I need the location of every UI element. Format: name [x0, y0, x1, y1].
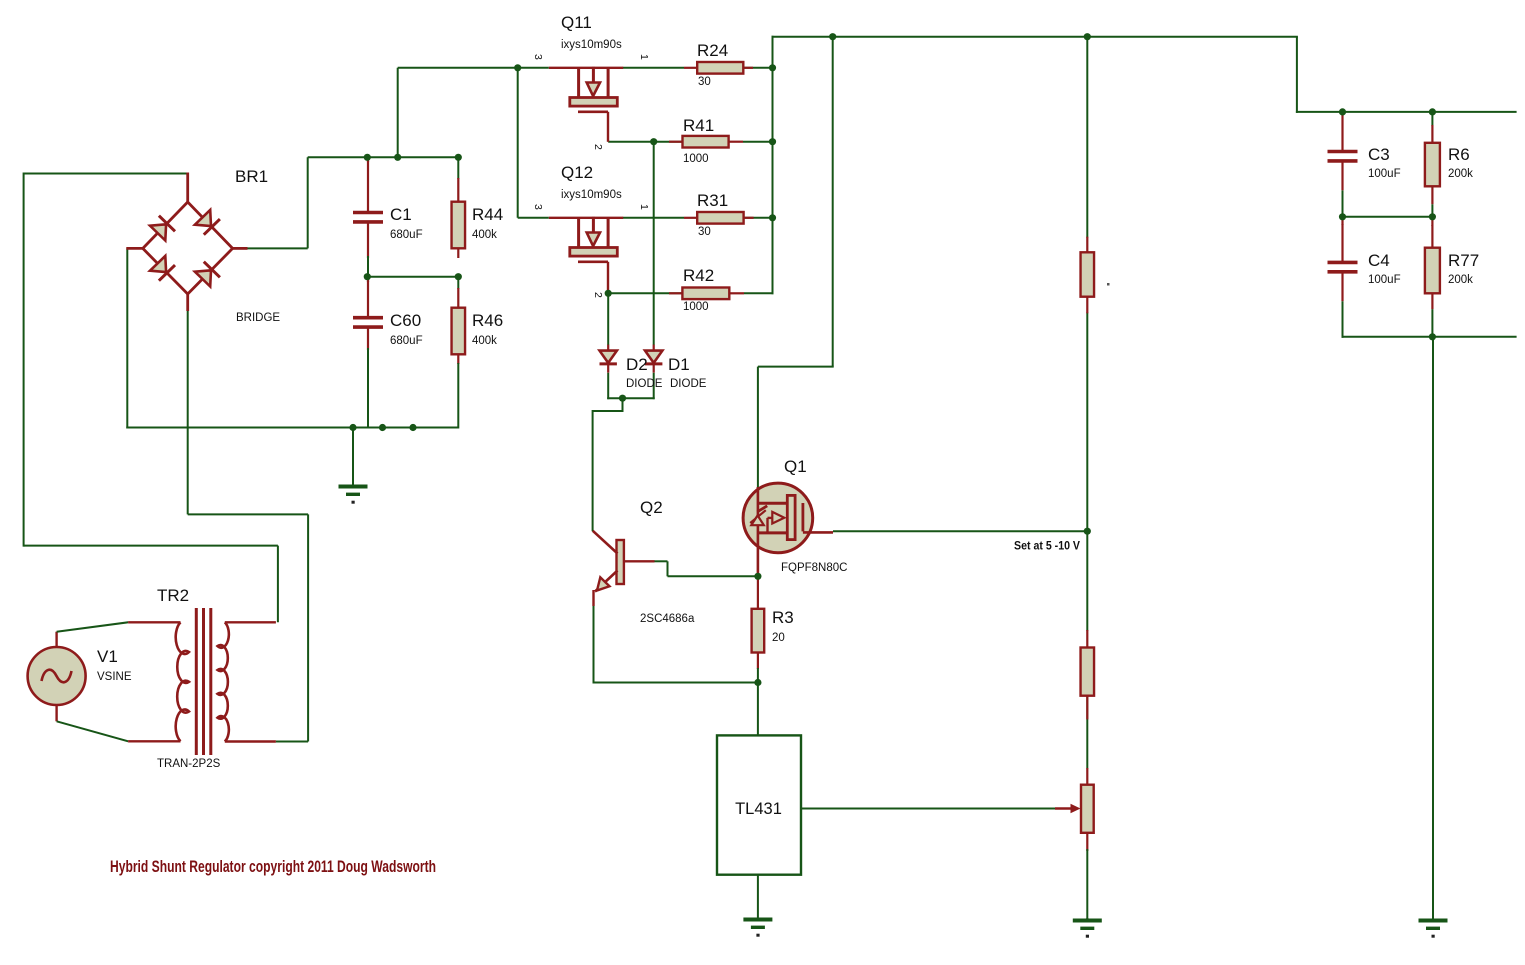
wire R24 right to rail — [743, 67, 773, 69]
capacitor C3 — [1328, 114, 1358, 190]
svg-text:200k: 200k — [1448, 168, 1473, 180]
wire ground bus — [126, 427, 458, 429]
wire Q11 pin2 row to R41 — [608, 141, 683, 143]
transistor Q2 (2SC4686a NPN) — [593, 531, 655, 606]
node Q1 source / Q2 base / R3 — [754, 573, 761, 580]
node top bus / drain riser — [829, 33, 836, 40]
wire Q2 base step 2 — [667, 561, 669, 576]
svg-text:TR2: TR2 — [157, 586, 189, 605]
node Q12 pin2 junction — [605, 290, 612, 297]
svg-text:R44: R44 — [472, 205, 503, 224]
capacitor C60 — [353, 281, 383, 350]
wire R6 top stub — [1431, 112, 1433, 126]
node R41/D1 junction — [650, 138, 657, 145]
wire V1 bottom to TR2 — [57, 721, 129, 741]
wire to TL431 top — [757, 683, 759, 737]
svg-text:C1: C1 — [390, 205, 412, 224]
wire middle column mid — [1086, 312, 1088, 631]
wire right mid rail — [1342, 216, 1434, 218]
resistor R3 — [752, 577, 765, 669]
wire up to C1 rail — [307, 157, 309, 248]
wire Q2 emitter down — [593, 605, 595, 684]
wire Q2 base step 1 — [654, 560, 668, 562]
svg-text:Q11: Q11 — [561, 13, 592, 32]
node R24/rail — [769, 64, 776, 71]
wire bridge-left down to ground bus — [126, 248, 128, 428]
svg-text:D1: D1 — [668, 355, 690, 374]
wire Q12 pin3 stub — [518, 217, 549, 219]
wire down to D2 — [607, 293, 609, 345]
svg-text:20: 20 — [772, 632, 785, 644]
wire Q11 pin1 to R24 — [623, 67, 684, 69]
svg-text:C3: C3 — [1368, 145, 1390, 164]
svg-text:Q1: Q1 — [784, 457, 807, 476]
wire join drop — [622, 398, 624, 411]
node bottom rail / ground rail — [1429, 333, 1436, 340]
resistor R44 — [452, 178, 466, 258]
capacitor C1 — [353, 161, 383, 258]
wire R44 top stub — [457, 157, 459, 179]
wire middle column top — [1086, 37, 1088, 238]
ground (pot) — [1073, 918, 1102, 938]
svg-text:R77: R77 — [1448, 251, 1479, 270]
node bus dot 2 — [379, 424, 386, 431]
node R41/rail — [769, 138, 776, 145]
resistor R31 — [684, 212, 754, 224]
wire right collector rail — [772, 36, 774, 295]
wire TL431 ref to pot wiper — [801, 808, 1056, 810]
node R6 top — [1429, 108, 1436, 115]
wire right rail to ground — [1432, 337, 1434, 920]
node D1/D2 junction — [619, 395, 626, 402]
capacitor C4 — [1328, 224, 1358, 301]
node C3/C4 — [1339, 213, 1346, 220]
resistor R42 — [669, 288, 744, 300]
svg-text:VSINE: VSINE — [97, 671, 132, 683]
wire Q1 drain riser — [832, 36, 834, 367]
wire C3 bottom stub — [1342, 190, 1344, 218]
wire R77 bottom stub — [1431, 309, 1433, 338]
svg-text:R3: R3 — [772, 608, 794, 627]
resistor R24 — [684, 62, 753, 74]
wire R31 right to rail — [744, 217, 773, 219]
node R44/R46 — [455, 273, 462, 280]
node R44 top — [455, 154, 462, 161]
stray dot artifact — [1107, 283, 1110, 286]
svg-text:680uF: 680uF — [390, 335, 423, 347]
wire top bus drop right — [1296, 37, 1298, 113]
wire Q12 pin2 row to R42 — [608, 292, 684, 294]
wire R46 top stub — [457, 277, 459, 289]
wire down to Q12 pin3 — [517, 68, 519, 218]
node bus dot 3 — [409, 424, 416, 431]
wire R42 right to rail — [744, 292, 774, 294]
svg-text:BRIDGE: BRIDGE — [236, 312, 280, 324]
svg-text:100uF: 100uF — [1368, 168, 1401, 180]
wire right bottom rail — [1342, 336, 1517, 338]
svg-text:1: 1 — [638, 54, 650, 60]
svg-text:C4: C4 — [1368, 251, 1390, 270]
svg-text:Q2: Q2 — [640, 498, 663, 517]
svg-text:R6: R6 — [1448, 145, 1470, 164]
wire down to D1 — [653, 142, 655, 345]
potentiometer RV1 — [1055, 768, 1094, 851]
svg-text:30: 30 — [698, 226, 711, 238]
wire bridge-bottom down — [187, 310, 189, 514]
wire TR2 secondary bottom — [276, 741, 308, 743]
svg-text:2: 2 — [592, 144, 604, 150]
wire C1/R44 top rail — [308, 156, 459, 158]
node R6/R77 — [1429, 213, 1436, 220]
node C3 top — [1339, 108, 1346, 115]
ground (TL431) — [743, 875, 772, 937]
node set-voltage tap — [1084, 528, 1091, 535]
diode D1 — [645, 345, 662, 373]
ground (right rail) — [1419, 917, 1448, 938]
svg-text:680uF: 680uF — [390, 229, 423, 241]
node riser/top rail — [394, 154, 401, 161]
wire bridge-top to left rail — [24, 173, 188, 175]
resistor R77 — [1425, 225, 1440, 309]
wire D1-D2 join — [607, 397, 655, 399]
wire top bus — [772, 36, 1298, 38]
svg-text:3: 3 — [532, 54, 544, 60]
wire Q2 base to R3 top node — [668, 575, 758, 577]
svg-text:1000: 1000 — [683, 301, 709, 313]
wire down to TR2 secondary top lead — [277, 546, 279, 623]
wire emitter row to R3 bottom node — [593, 682, 758, 684]
svg-text:R31: R31 — [697, 191, 728, 210]
svg-text:R24: R24 — [697, 41, 728, 60]
wire down to Q2 collector — [592, 410, 594, 531]
transistor Q12 (ixys10m90s depletion FET) — [549, 217, 623, 292]
wire R6 bottom stub — [1431, 204, 1433, 218]
svg-text:ixys10m90s: ixys10m90s — [561, 189, 622, 201]
node top bus / middle column — [1084, 33, 1091, 40]
node R31/rail — [769, 214, 776, 221]
ground (bus) — [339, 428, 368, 504]
wire D2 bottom — [607, 373, 609, 400]
resistor R6 — [1425, 125, 1440, 204]
wire riser to Q11 row — [397, 68, 399, 158]
svg-text:R41: R41 — [683, 116, 714, 135]
svg-text:D2: D2 — [626, 355, 648, 374]
node C1 top — [364, 154, 371, 161]
svg-text:2SC4686a: 2SC4686a — [640, 613, 695, 625]
wire Q1 drain top — [758, 366, 834, 368]
svg-text:Set at 5 -10 V: Set at 5 -10 V — [1014, 539, 1080, 553]
svg-text:DIODE: DIODE — [670, 378, 707, 390]
svg-text:3: 3 — [532, 204, 544, 210]
svg-text:C60: C60 — [390, 311, 421, 330]
wire pot to ground — [1086, 849, 1088, 920]
wire Q12 pin1 to R31 — [623, 217, 684, 219]
wire down to Q1 drain — [757, 367, 759, 489]
svg-text:TL431: TL431 — [735, 800, 782, 818]
transistor Q1 (FQPF8N80C MOSFET) — [743, 483, 833, 577]
svg-text:DIODE: DIODE — [626, 378, 663, 390]
transistor Q11 (ixys10m90s depletion FET) — [549, 67, 623, 142]
svg-text:BR1: BR1 — [235, 167, 268, 186]
wire step left — [593, 410, 624, 412]
svg-text:TRAN-2P2S: TRAN-2P2S — [157, 758, 221, 770]
wire D1 bottom — [653, 373, 655, 400]
svg-text:R42: R42 — [683, 266, 714, 285]
wire bridge-right toward C1 — [247, 247, 308, 249]
resistor R46 — [452, 288, 466, 364]
source V1 VSINE — [28, 632, 86, 722]
svg-text:2: 2 — [592, 292, 604, 298]
svg-text:1000: 1000 — [683, 153, 709, 165]
resistor (lower divider, unlabeled) — [1081, 630, 1095, 719]
transformer TR2 TRAN-2P2S — [128, 608, 276, 755]
wire C1/R44 mid rail — [367, 276, 458, 278]
svg-text:400k: 400k — [472, 229, 497, 241]
wire V1 top to TR2 — [57, 622, 129, 631]
svg-text:Hybrid Shunt Regulator copyrig: Hybrid Shunt Regulator copyright 2011 Do… — [110, 858, 436, 876]
diode D2 — [600, 345, 617, 373]
wire middle column to pot — [1086, 696, 1088, 769]
node Q11 pin3 junction — [514, 64, 521, 71]
resistor R41 — [669, 136, 743, 148]
svg-text:1: 1 — [638, 204, 650, 210]
wire C4 bottom stub — [1342, 301, 1344, 338]
wire R46 to bus — [457, 363, 459, 429]
wire to secondary bottom riser — [188, 513, 308, 515]
svg-text:R46: R46 — [472, 311, 503, 330]
bridge rectifier BR1 — [126, 173, 247, 312]
svg-text:200k: 200k — [1448, 274, 1473, 286]
voltage reference U1 TL431 — [717, 735, 801, 874]
wire Q1 source row — [833, 530, 1087, 532]
wire to transformer secondary top — [24, 545, 278, 547]
node R3 bottom / TL431 — [754, 679, 761, 686]
svg-text:FQPF8N80C: FQPF8N80C — [781, 562, 847, 574]
wire left vertical rail — [23, 173, 25, 547]
svg-text:400k: 400k — [472, 335, 497, 347]
resistor (upper shunt, unlabeled) — [1081, 237, 1095, 314]
wire riser to TR2 secondary bottom — [307, 514, 309, 741]
svg-text:30: 30 — [698, 76, 711, 88]
wire right top rail — [1296, 111, 1517, 113]
node C1/C60 — [364, 273, 371, 280]
wire Q11 pin3 row — [398, 67, 549, 69]
svg-text:ixys10m90s: ixys10m90s — [561, 39, 622, 51]
wire R41 right to rail — [743, 141, 773, 143]
svg-text:V1: V1 — [97, 647, 118, 666]
svg-text:Q12: Q12 — [561, 163, 593, 182]
wire C60 to bus — [367, 348, 369, 429]
svg-text:100uF: 100uF — [1368, 274, 1401, 286]
node bus/ground — [349, 424, 356, 431]
